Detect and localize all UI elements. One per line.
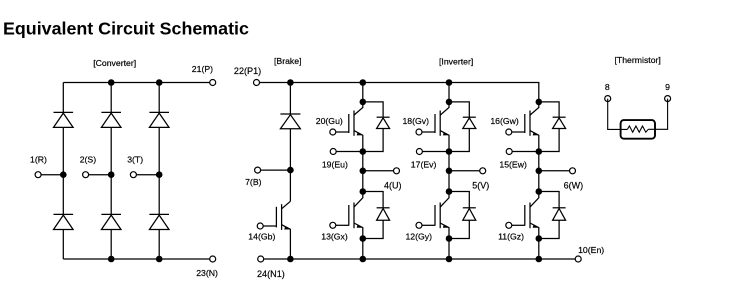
- terminal 10(En): [575, 256, 581, 262]
- wire emitter 15(Ew): [509, 151, 539, 153]
- transistor 20(Gu) body bar: [353, 111, 355, 136]
- diode D5 bottom: [101, 214, 121, 229]
- junction 7(B) node: [287, 167, 294, 174]
- svg-text:6(W): 6(W): [564, 180, 584, 190]
- svg-text:4(U): 4(U): [384, 180, 402, 190]
- transistor 12(Gy) gate bar: [434, 205, 436, 226]
- transistor 18(Gv) emitter: [440, 131, 449, 152]
- transistor 18(Gv) body bar: [439, 111, 441, 136]
- svg-text:[Inverter]: [Inverter]: [439, 56, 473, 66]
- svg-text:Equivalent Circuit Schematic: Equivalent Circuit Schematic: [3, 18, 249, 38]
- wire emitter 17(Ev): [419, 151, 449, 153]
- svg-text:[Brake]: [Brake]: [274, 56, 302, 66]
- wire P1 rail: [257, 83, 539, 102]
- junction split lower U: [360, 188, 367, 195]
- label 10(En): [578, 245, 604, 255]
- svg-text:5(V): 5(V): [472, 180, 489, 190]
- wire converter leg 3 upper: [158, 83, 160, 113]
- diode D2 top: [101, 112, 121, 127]
- junction node 3(T): [156, 171, 163, 178]
- wire converter P rail: [63, 82, 212, 84]
- wire input 3(T): [133, 174, 159, 176]
- svg-text:15(Ew): 15(Ew): [499, 160, 527, 170]
- wire leg W to N rail: [538, 239, 540, 260]
- label 20(Gu): [316, 116, 343, 126]
- label 21(P): [192, 64, 213, 74]
- wire thermistor left: [608, 99, 628, 130]
- diode D1 top: [54, 112, 74, 127]
- terminal 8: [605, 96, 611, 102]
- svg-text:14(Gb): 14(Gb): [248, 232, 275, 242]
- wire converter leg 3 lower: [158, 230, 160, 260]
- svg-text:3(T): 3(T): [127, 155, 143, 165]
- svg-text:9: 9: [665, 82, 670, 92]
- svg-text:8: 8: [605, 82, 610, 92]
- wire emitter 19(Eu): [333, 151, 363, 153]
- wire leg U from rail: [362, 83, 364, 102]
- label 1(R): [30, 155, 47, 165]
- junction node 2(S): [108, 171, 115, 178]
- svg-text:11(Gz): 11(Gz): [498, 232, 524, 242]
- transistor 13(Gx) collector: [354, 192, 363, 208]
- transistor 13(Gx) gate wire: [336, 224, 349, 226]
- diode D3 top: [149, 112, 169, 127]
- junction bottom rail leg2: [108, 256, 115, 263]
- wire thermistor right: [648, 99, 667, 130]
- label 12(Gy): [405, 232, 432, 242]
- terminal 7(B): [255, 167, 261, 173]
- diode freewheel upper W: [539, 102, 566, 152]
- terminal 6(W): [570, 168, 576, 174]
- transistor 11(Gz) collector: [530, 192, 539, 208]
- label 13(Gx): [321, 232, 348, 242]
- diode freewheel lower V: [449, 192, 476, 239]
- wire leg V output-split: [448, 171, 450, 192]
- svg-text:16(Gw): 16(Gw): [490, 116, 519, 126]
- terminal gate 11(Gz): [506, 222, 512, 228]
- junction output V: [446, 168, 453, 175]
- diode freewheel lower U: [363, 192, 390, 239]
- svg-text:19(Eu): 19(Eu): [322, 160, 348, 170]
- wire converter leg 3 middle: [158, 127, 160, 214]
- terminal 21(P): [210, 80, 216, 86]
- transistor 20(Gu) gate wire: [336, 131, 349, 133]
- label 6(W): [564, 180, 584, 190]
- junction split upper V: [446, 99, 453, 106]
- terminal 17(Ev): [416, 149, 422, 155]
- label 5(V): [472, 180, 489, 190]
- label 4(U): [384, 180, 402, 190]
- svg-text:18(Gv): 18(Gv): [402, 116, 429, 126]
- terminal gate 18(Gv): [416, 129, 422, 135]
- terminal 9: [665, 96, 671, 102]
- terminal 1(R): [35, 172, 41, 178]
- wire leg U to N rail: [362, 239, 364, 260]
- diode D4 bottom: [54, 214, 74, 229]
- wire brake leg upper: [289, 83, 291, 115]
- svg-text:24(N1): 24(N1): [257, 269, 285, 279]
- wire converter leg 1 middle: [62, 127, 64, 214]
- transistor 13(Gx) emitter: [354, 223, 363, 239]
- label 23(N): [196, 268, 218, 278]
- transistor 11(Gz) gate bar: [524, 205, 526, 226]
- label 19(Eu): [322, 160, 348, 170]
- junction top rail phase U: [360, 79, 367, 86]
- svg-text:[Converter]: [Converter]: [93, 58, 136, 68]
- terminal 4(U): [394, 168, 400, 174]
- transistor 18(Gv) gate bar: [434, 114, 436, 133]
- transistor 14(Gb) gate wire: [263, 225, 276, 227]
- thermistor body: [621, 120, 655, 139]
- label 15(Ew): [499, 160, 527, 170]
- label 9: [665, 82, 670, 92]
- label 16(Gw): [490, 116, 519, 126]
- transistor 14(Gb) body bar: [281, 204, 283, 230]
- junction bottom rail U: [360, 256, 367, 263]
- svg-text:1(R): 1(R): [30, 155, 47, 165]
- transistor 12(Gy) gate wire: [422, 224, 435, 226]
- svg-text:2(S): 2(S): [80, 155, 97, 165]
- label 22(P1): [234, 66, 261, 76]
- terminal 15(Ew): [506, 149, 512, 155]
- wire input 1(R): [38, 174, 63, 176]
- transistor 18(Gv) gate wire: [422, 131, 435, 133]
- terminal 2(S): [83, 172, 89, 178]
- wire input 2(S): [86, 174, 112, 176]
- svg-text:17(Ev): 17(Ev): [411, 160, 437, 170]
- terminal gate 20(Gu): [330, 129, 336, 135]
- transistor 16(Gw) gate bar: [524, 114, 526, 133]
- wire converter leg 1 lower: [62, 230, 64, 260]
- transistor 18(Gv) collector: [440, 102, 449, 115]
- label 17(Ev): [411, 160, 437, 170]
- junction split upper U: [360, 99, 367, 106]
- transistor 16(Gw) collector: [530, 102, 539, 115]
- svg-text:[Thermistor]: [Thermistor]: [615, 55, 661, 65]
- wire output 4(U): [363, 170, 397, 172]
- junction output U: [360, 168, 367, 175]
- terminal 5(V): [480, 168, 486, 174]
- junction output W: [536, 168, 543, 175]
- transistor 11(Gz) emitter: [530, 223, 539, 239]
- transistor 13(Gx) body bar: [353, 203, 355, 229]
- transistor 11(Gz) body bar: [529, 203, 531, 229]
- title: [3, 18, 249, 38]
- transistor 20(Gu) gate bar: [348, 114, 350, 133]
- label 3(T): [127, 155, 143, 165]
- label 11(Gz): [498, 232, 524, 242]
- junction emitter W lower: [536, 235, 543, 242]
- wire converter N rail: [63, 258, 212, 260]
- transistor 20(Gu) emitter: [354, 131, 363, 152]
- terminal 19(Eu): [330, 149, 336, 155]
- transistor 16(Gw) emitter: [530, 131, 539, 152]
- transistor 14(Gb) emitter: [282, 225, 291, 259]
- wire leg W emitter-output: [538, 152, 540, 171]
- wire 7(B): [258, 169, 291, 171]
- terminal gate 14(Gb): [257, 223, 263, 229]
- wire leg V from rail: [448, 83, 450, 102]
- junction bottom rail W: [536, 256, 543, 263]
- junction emitter V upper: [446, 148, 453, 155]
- transistor 14(Gb) collector: [282, 201, 291, 209]
- transistor 11(Gz) gate wire: [512, 224, 525, 226]
- junction bottom rail leg3: [156, 256, 163, 263]
- junction emitter U lower: [360, 235, 367, 242]
- junction brake bottom: [287, 256, 294, 263]
- label [Converter]: [93, 58, 136, 68]
- transistor 12(Gy) body bar: [439, 203, 441, 229]
- svg-text:20(Gu): 20(Gu): [316, 116, 343, 126]
- junction top rail phase V: [446, 79, 453, 86]
- transistor 12(Gy) collector: [440, 192, 449, 208]
- label 24(N1): [257, 269, 285, 279]
- junction brake top: [287, 79, 294, 86]
- svg-text:7(B): 7(B): [245, 177, 262, 187]
- svg-text:23(N): 23(N): [196, 268, 218, 278]
- wire brake leg middle: [289, 129, 291, 202]
- terminal gate 16(Gw): [506, 129, 512, 135]
- label 2(S): [80, 155, 97, 165]
- wire leg W output-split: [538, 171, 540, 192]
- wire leg U emitter-output: [362, 152, 364, 171]
- terminal gate 13(Gx): [330, 222, 336, 228]
- terminal gate 12(Gy): [416, 222, 422, 228]
- transistor 13(Gx) gate bar: [348, 205, 350, 226]
- junction split lower W: [536, 188, 543, 195]
- terminal 24(N1): [258, 256, 264, 262]
- wire converter leg 2 middle: [110, 127, 112, 214]
- svg-text:12(Gy): 12(Gy): [405, 232, 432, 242]
- transistor 12(Gy) emitter: [440, 223, 449, 239]
- wire converter leg 1 upper: [62, 83, 64, 113]
- junction emitter W upper: [536, 148, 543, 155]
- junction node 1(R): [60, 171, 67, 178]
- junction emitter U upper: [360, 148, 367, 155]
- diode freewheel upper V: [449, 102, 476, 152]
- thermistor element: [627, 126, 648, 132]
- wire converter leg 2 upper: [110, 83, 112, 113]
- wire output 6(W): [539, 170, 573, 172]
- diode freewheel upper U: [363, 102, 390, 152]
- junction top rail leg3: [156, 79, 163, 86]
- junction bottom rail V: [446, 256, 453, 263]
- wire converter leg 2 lower: [110, 230, 112, 260]
- terminal 22(P1): [254, 80, 260, 86]
- label [Brake]: [274, 56, 302, 66]
- svg-text:10(En): 10(En): [578, 245, 604, 255]
- transistor 16(Gw) body bar: [529, 111, 531, 136]
- label 14(Gb): [248, 232, 275, 242]
- svg-text:13(Gx): 13(Gx): [321, 232, 348, 242]
- brake diode: [280, 114, 300, 129]
- junction split upper W: [536, 99, 543, 106]
- label [Thermistor]: [615, 55, 661, 65]
- svg-text:22(P1): 22(P1): [234, 66, 261, 76]
- label 18(Gv): [402, 116, 429, 126]
- wire leg V to N rail: [448, 239, 450, 260]
- transistor 16(Gw) gate wire: [512, 131, 525, 133]
- transistor 20(Gu) collector: [354, 102, 363, 115]
- junction split lower V: [446, 188, 453, 195]
- wire N1 rail: [261, 258, 579, 260]
- junction emitter V lower: [446, 235, 453, 242]
- wire output 5(V): [449, 170, 483, 172]
- terminal 23(N): [210, 256, 216, 262]
- wire leg V emitter-output: [448, 152, 450, 171]
- transistor 14(Gb) gate bar: [275, 207, 277, 228]
- label 8: [605, 82, 610, 92]
- label [Inverter]: [439, 56, 473, 66]
- diode freewheel lower W: [539, 192, 566, 239]
- label 7(B): [245, 177, 262, 187]
- wire leg U output-split: [362, 171, 364, 192]
- svg-text:21(P): 21(P): [192, 64, 213, 74]
- junction top rail leg2: [108, 79, 115, 86]
- terminal 3(T): [130, 172, 136, 178]
- diode D6 bottom: [149, 214, 169, 229]
